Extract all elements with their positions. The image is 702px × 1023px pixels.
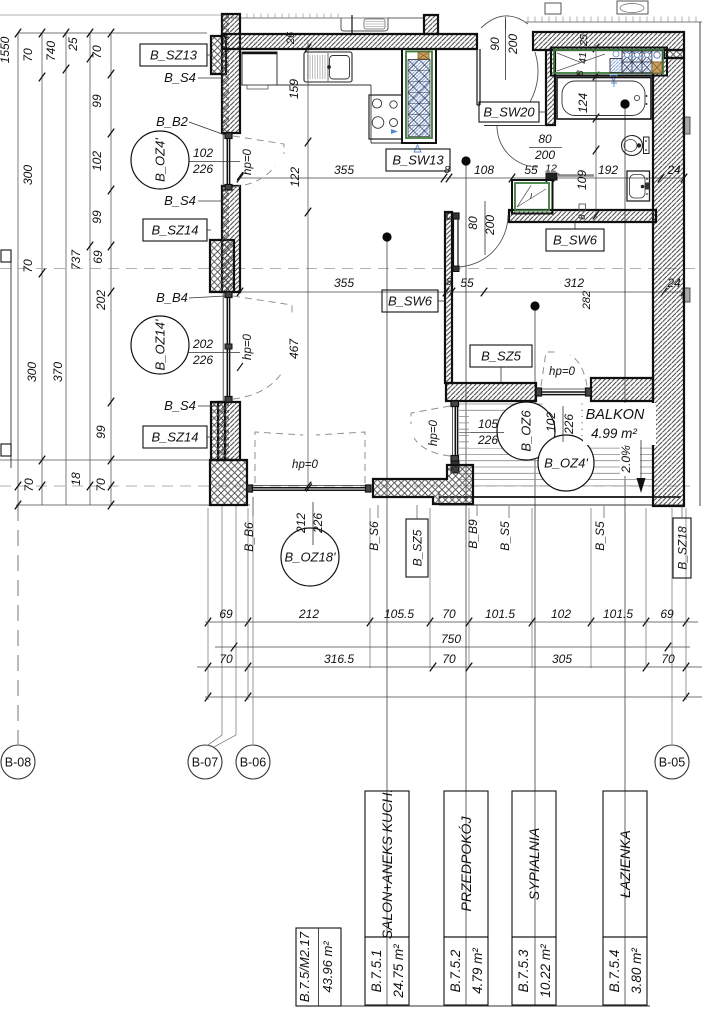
svg-text:202: 202: [94, 290, 108, 311]
svg-text:102: 102: [193, 146, 213, 160]
svg-text:70: 70: [21, 48, 35, 62]
svg-text:105.5: 105.5: [384, 607, 414, 621]
svg-text:B_SW20: B_SW20: [483, 105, 535, 120]
svg-text:467: 467: [287, 338, 301, 359]
svg-text:312: 312: [564, 276, 584, 290]
svg-text:SALON+ANEKS KUCH.: SALON+ANEKS KUCH.: [379, 789, 395, 940]
svg-text:200: 200: [534, 148, 555, 162]
svg-text:102: 102: [90, 151, 104, 171]
svg-text:4.99 m²: 4.99 m²: [591, 426, 637, 441]
svg-text:25: 25: [66, 37, 80, 52]
svg-text:B_OZ4': B_OZ4': [544, 456, 588, 471]
svg-text:80: 80: [466, 216, 480, 230]
svg-text:99: 99: [90, 210, 104, 224]
svg-text:70: 70: [22, 478, 36, 492]
svg-text:B_SZ5: B_SZ5: [411, 529, 425, 566]
svg-text:hp=0: hp=0: [549, 366, 576, 378]
svg-text:1550: 1550: [0, 36, 12, 63]
svg-text:l: l: [530, 192, 532, 201]
svg-text:B_SW13: B_SW13: [392, 153, 444, 168]
svg-text:B_B2: B_B2: [156, 114, 189, 129]
svg-text:300: 300: [25, 362, 39, 382]
svg-text:B_S4: B_S4: [164, 70, 196, 85]
svg-text:282: 282: [581, 291, 593, 310]
svg-text:SYPIALNIA: SYPIALNIA: [526, 828, 542, 900]
svg-text:750: 750: [441, 632, 461, 646]
svg-text:B_SZ5: B_SZ5: [481, 349, 522, 364]
svg-text:101.5: 101.5: [603, 607, 633, 621]
svg-text:B_SZ14: B_SZ14: [152, 223, 199, 238]
svg-text:99: 99: [94, 425, 108, 439]
svg-text:122: 122: [288, 167, 302, 187]
svg-text:B.7.5.1: B.7.5.1: [369, 950, 384, 993]
svg-text:B_B4: B_B4: [156, 290, 188, 305]
svg-text:ŁAZIENKA: ŁAZIENKA: [617, 830, 633, 898]
svg-text:70: 70: [90, 45, 104, 59]
svg-text:192: 192: [598, 163, 618, 177]
svg-text:PRZEDPOKÓJ: PRZEDPOKÓJ: [458, 816, 474, 912]
svg-text:90: 90: [488, 37, 502, 51]
svg-text:10.22 m²: 10.22 m²: [538, 944, 553, 998]
svg-text:B.7.5.3: B.7.5.3: [516, 949, 531, 992]
svg-text:212: 212: [294, 513, 308, 534]
svg-text:B_OZ18': B_OZ18': [285, 550, 336, 565]
svg-text:69: 69: [660, 607, 674, 621]
svg-text:737: 737: [69, 249, 83, 270]
svg-text:2.0%: 2.0%: [619, 445, 633, 474]
svg-text:69: 69: [91, 250, 105, 264]
svg-text:108: 108: [474, 163, 494, 177]
svg-text:B_S5: B_S5: [593, 521, 607, 551]
svg-text:hp=0: hp=0: [242, 148, 254, 175]
svg-text:B_OZ4': B_OZ4': [153, 138, 168, 182]
svg-text:226: 226: [192, 162, 213, 176]
svg-text:B.7.5/M2.17: B.7.5/M2.17: [297, 931, 312, 1002]
svg-text:B_OZ6: B_OZ6: [519, 410, 534, 452]
svg-text:70: 70: [21, 259, 35, 273]
svg-text:8: 8: [577, 214, 588, 220]
svg-text:hp=0: hp=0: [292, 459, 319, 471]
svg-text:200: 200: [506, 34, 520, 55]
svg-text:B.7.5.4: B.7.5.4: [607, 950, 622, 993]
svg-text:4.79 m²: 4.79 m²: [470, 948, 485, 994]
svg-text:B-08: B-08: [5, 756, 31, 770]
svg-text:hp=0: hp=0: [428, 419, 440, 446]
svg-text:212: 212: [298, 607, 319, 621]
svg-text:55: 55: [460, 276, 474, 290]
svg-text:226: 226: [562, 414, 576, 435]
svg-text:12: 12: [545, 163, 557, 175]
svg-text:B_OZ14': B_OZ14': [153, 319, 168, 370]
svg-text:B.7.5.2: B.7.5.2: [448, 949, 463, 992]
svg-text:99: 99: [90, 94, 104, 108]
svg-text:B_B6: B_B6: [242, 522, 256, 552]
svg-text:355: 355: [334, 163, 354, 177]
svg-text:102: 102: [544, 412, 558, 432]
svg-text:B_S6: B_S6: [367, 521, 381, 551]
svg-text:B_SW6: B_SW6: [388, 294, 433, 309]
svg-text:69: 69: [219, 607, 233, 621]
svg-text:159: 159: [287, 79, 301, 99]
svg-text:124: 124: [576, 93, 590, 113]
svg-text:26: 26: [285, 31, 297, 45]
svg-text:226: 226: [192, 353, 213, 367]
svg-text:B-07: B-07: [192, 756, 218, 770]
svg-text:226: 226: [477, 433, 498, 447]
svg-text:24: 24: [666, 163, 681, 177]
svg-text:25: 25: [578, 34, 590, 47]
svg-text:80: 80: [538, 132, 552, 146]
svg-text:B_SZ18: B_SZ18: [676, 526, 690, 570]
svg-text:355: 355: [334, 276, 354, 290]
svg-text:70: 70: [94, 478, 108, 492]
svg-text:B_S5: B_S5: [498, 521, 512, 551]
svg-text:316.5: 316.5: [324, 652, 354, 666]
svg-text:101.5: 101.5: [485, 607, 515, 621]
svg-text:43.96 m²: 43.96 m²: [320, 941, 335, 993]
svg-text:370: 370: [51, 362, 65, 382]
svg-text:202: 202: [192, 337, 213, 351]
svg-text:41: 41: [577, 52, 589, 64]
svg-text:8: 8: [444, 164, 450, 176]
svg-text:24: 24: [666, 276, 681, 290]
svg-text:102: 102: [551, 607, 571, 621]
svg-text:B-06: B-06: [240, 756, 266, 770]
svg-text:B-05: B-05: [659, 756, 685, 770]
svg-text:BALKON: BALKON: [586, 407, 645, 423]
svg-text:300: 300: [21, 165, 35, 185]
svg-text:3.80 m²: 3.80 m²: [629, 948, 644, 994]
svg-text:8: 8: [575, 70, 586, 76]
svg-text:70: 70: [219, 652, 233, 666]
svg-text:B_B9: B_B9: [466, 519, 480, 549]
svg-text:70: 70: [442, 652, 456, 666]
svg-text:24.75 m²: 24.75 m²: [391, 944, 406, 999]
svg-text:740: 740: [44, 41, 58, 61]
svg-text:109: 109: [575, 170, 589, 190]
svg-text:70: 70: [661, 652, 675, 666]
svg-text:B_SZ14: B_SZ14: [152, 430, 199, 445]
svg-text:B_S4: B_S4: [164, 398, 196, 413]
svg-text:70: 70: [442, 607, 456, 621]
svg-text:8: 8: [446, 276, 452, 288]
svg-text:B_SW6: B_SW6: [553, 233, 598, 248]
svg-text:226: 226: [311, 513, 325, 534]
svg-text:hp=0: hp=0: [242, 333, 254, 360]
svg-text:305: 305: [552, 652, 572, 666]
svg-text:B_S4: B_S4: [164, 193, 196, 208]
svg-text:B_SZ13: B_SZ13: [150, 48, 198, 63]
svg-text:18: 18: [69, 472, 83, 486]
svg-text:105: 105: [478, 417, 498, 431]
